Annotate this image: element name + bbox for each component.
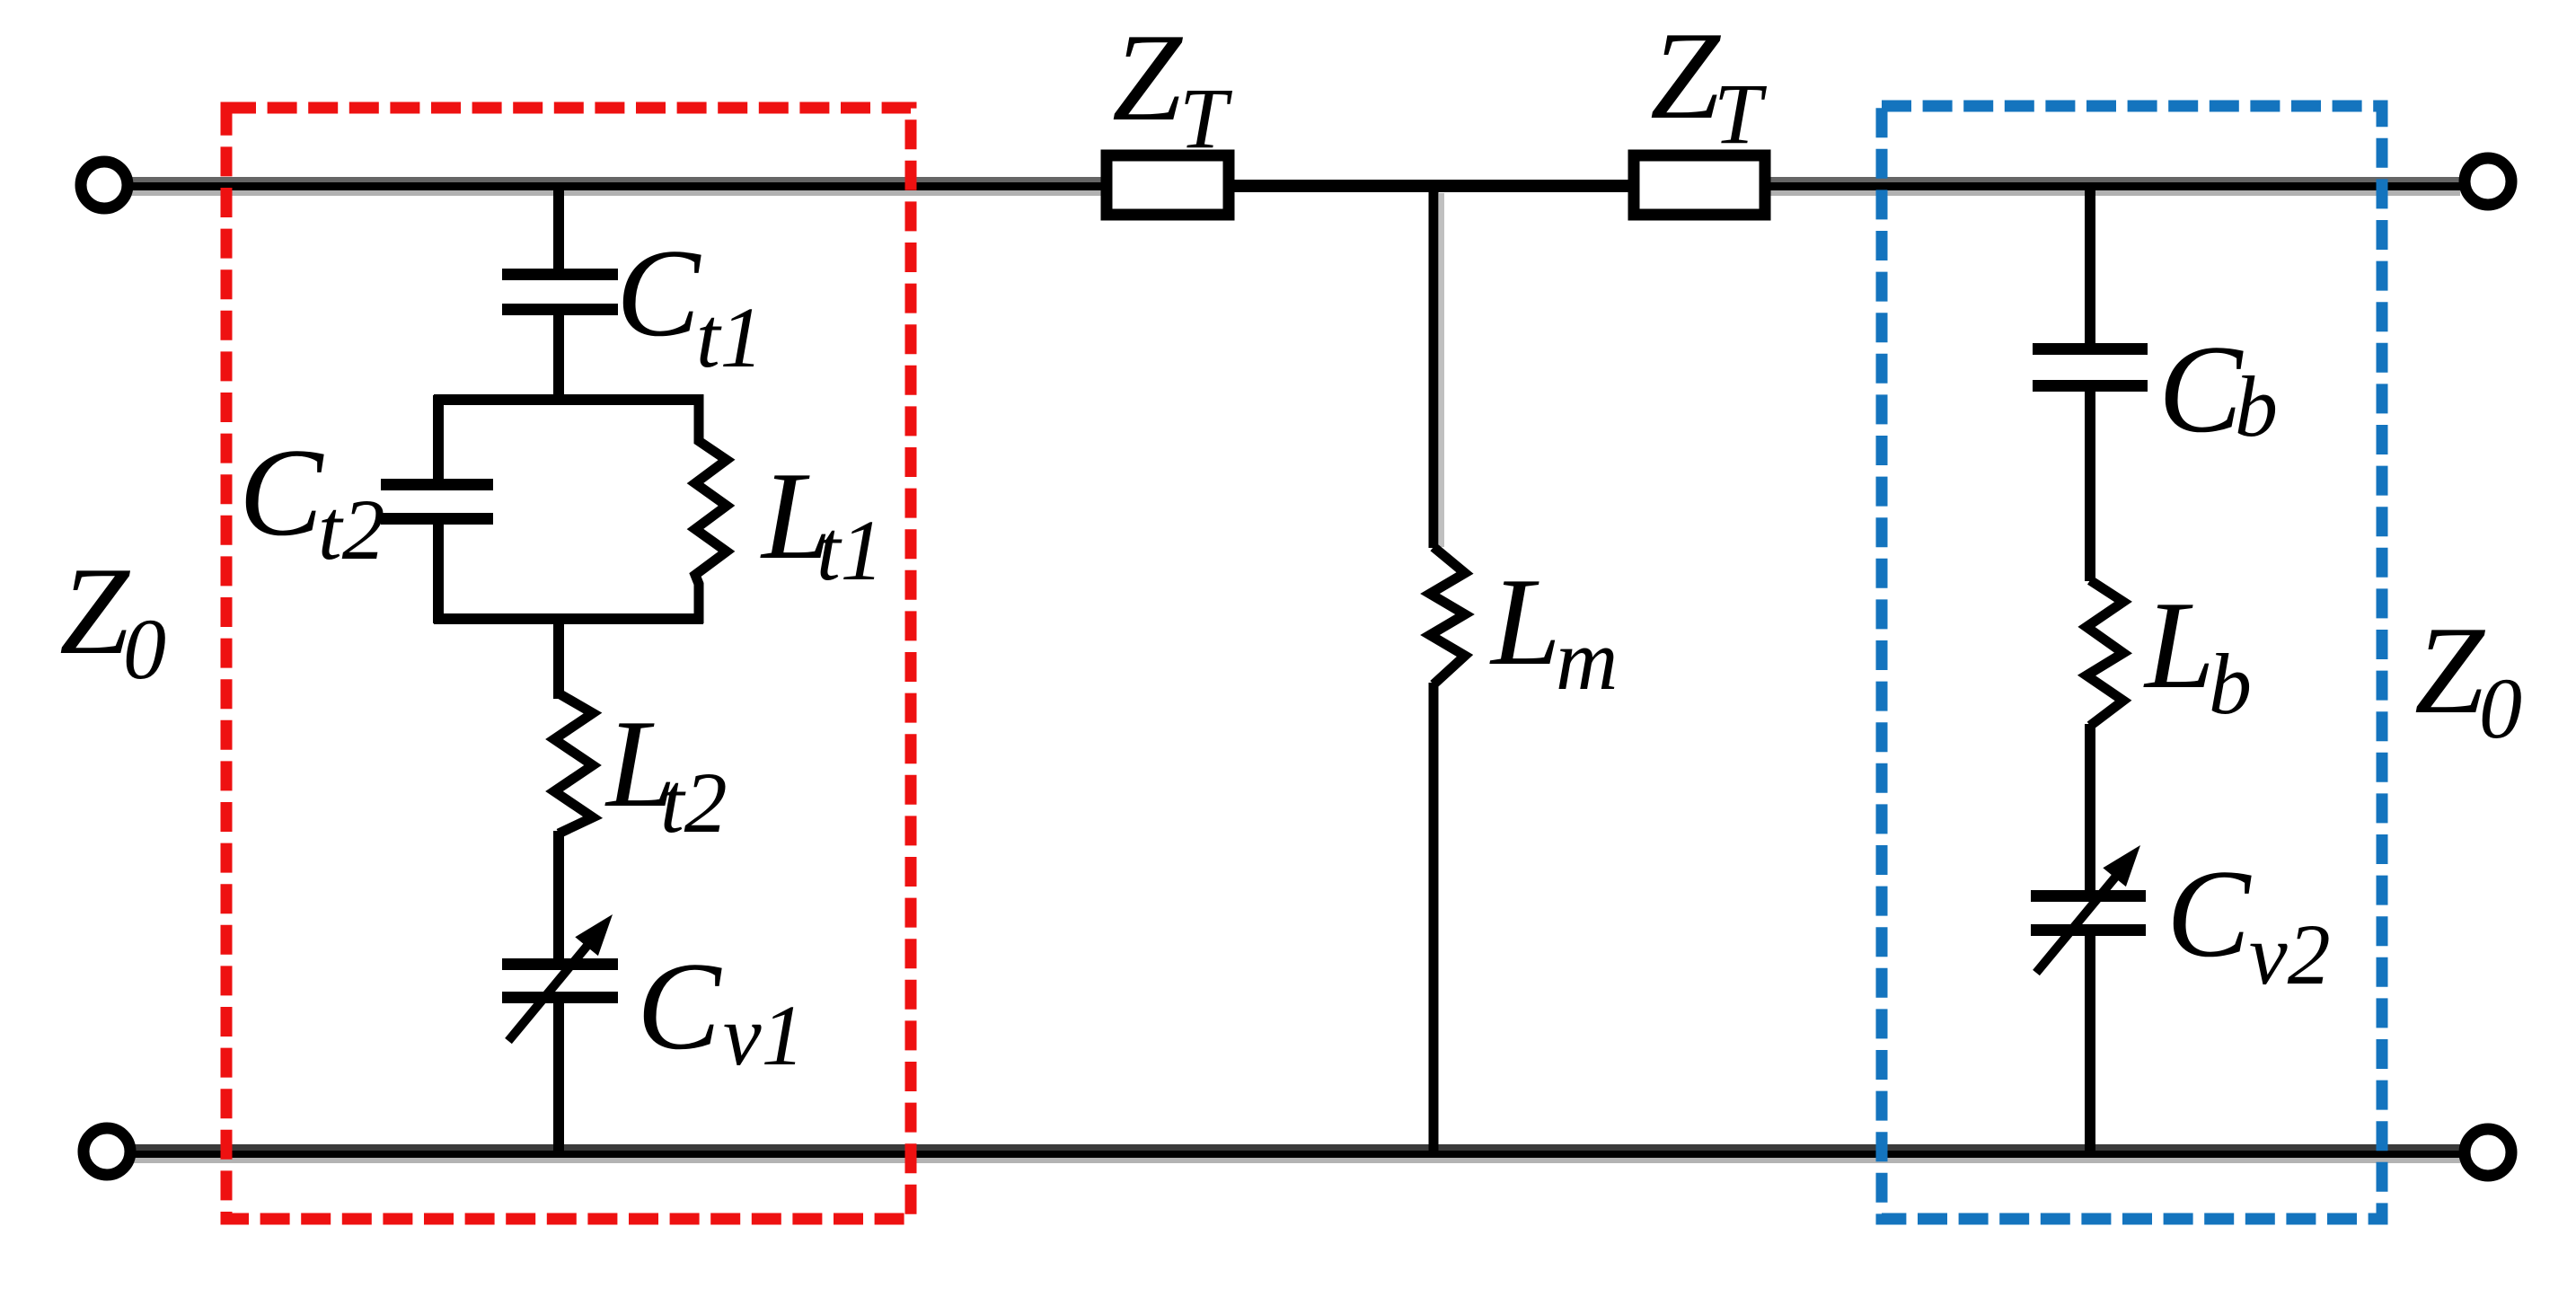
svg-text:L: L	[1489, 552, 1561, 692]
svg-text:t1: t1	[816, 502, 884, 598]
svg-text:v2: v2	[2249, 906, 2331, 1002]
svg-text:C: C	[616, 224, 701, 363]
svg-text:t2: t2	[318, 481, 385, 578]
svg-text:L: L	[2143, 576, 2215, 715]
svg-text:C: C	[2158, 320, 2244, 459]
svg-text:Z: Z	[59, 542, 131, 681]
svg-text:Z: Z	[1650, 6, 1722, 146]
svg-text:0: 0	[123, 601, 166, 697]
svg-text:Z: Z	[2414, 601, 2486, 740]
svg-text:0: 0	[2479, 660, 2522, 756]
svg-text:C: C	[637, 937, 722, 1076]
svg-text:T: T	[1714, 66, 1768, 162]
svg-text:T: T	[1179, 70, 1233, 166]
svg-text:t2: t2	[660, 754, 728, 851]
svg-text:Z: Z	[1112, 8, 1184, 147]
svg-text:b: b	[2235, 358, 2278, 454]
svg-text:t1: t1	[696, 289, 763, 385]
svg-text:C: C	[239, 423, 324, 562]
svg-text:C: C	[2166, 844, 2252, 984]
svg-text:b: b	[2209, 636, 2252, 732]
svg-text:m: m	[1556, 612, 1618, 708]
svg-text:v1: v1	[723, 987, 805, 1083]
